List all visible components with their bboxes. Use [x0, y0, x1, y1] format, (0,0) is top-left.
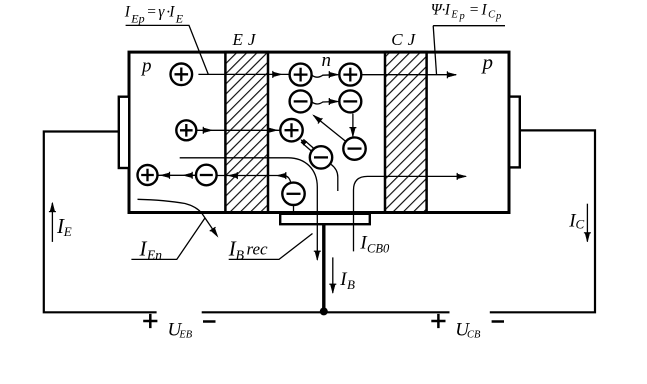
svg-text:I: I	[444, 2, 451, 19]
svg-text:E: E	[63, 224, 72, 239]
svg-text:rec: rec	[247, 240, 269, 259]
svg-text:E: E	[450, 10, 458, 21]
svg-text:I: I	[168, 4, 175, 21]
svg-text:I: I	[481, 2, 488, 19]
svg-text:B: B	[347, 277, 355, 292]
svg-text:EB: EB	[178, 330, 192, 341]
svg-text:p: p	[481, 50, 494, 74]
svg-text:CB0: CB0	[367, 242, 390, 256]
svg-text:=: =	[469, 2, 479, 19]
svg-text:En: En	[146, 247, 162, 262]
svg-text:=: =	[146, 4, 156, 21]
svg-text:γ: γ	[158, 4, 165, 21]
svg-text:C: C	[576, 217, 585, 232]
svg-text:B: B	[236, 249, 245, 264]
svg-text:I: I	[124, 4, 131, 21]
svg-text:p: p	[495, 11, 501, 22]
svg-text:p: p	[459, 11, 465, 22]
svg-text:C: C	[488, 10, 496, 21]
svg-text:EJ: EJ	[232, 30, 261, 49]
svg-text:E: E	[175, 11, 184, 25]
svg-text:CB: CB	[467, 330, 481, 341]
svg-text:Ep: Ep	[130, 11, 144, 25]
svg-text:p: p	[140, 56, 152, 77]
svg-text:n: n	[322, 50, 332, 71]
svg-text:CJ: CJ	[391, 30, 420, 49]
